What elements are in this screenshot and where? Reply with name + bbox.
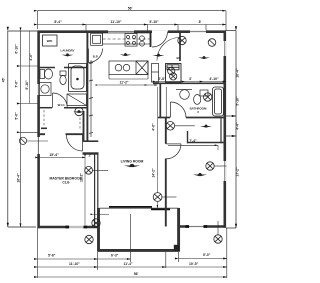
bedroom2 tag circle	[206, 162, 227, 170]
patio dim tick line	[94, 213, 110, 215]
hall west wall	[86, 31, 88, 142]
water heater tag 1	[168, 67, 175, 74]
svg-text:16'-4": 16'-4"	[17, 173, 21, 183]
window left bath1	[37, 84, 40, 95]
laundry fan	[62, 53, 74, 56]
fridge	[91, 33, 103, 45]
kitchen inner dim	[99, 84, 158, 86]
sink 1	[40, 83, 52, 96]
kitchen counter band	[103, 33, 151, 44]
bedroom2 width dim	[168, 145, 218, 150]
bath1 door arc	[53, 93, 68, 108]
living vertical dim	[156, 87, 158, 208]
bedroom2 fan	[193, 173, 207, 176]
patio corner post	[174, 245, 179, 251]
stove	[125, 34, 137, 47]
bottom dim row 2	[38, 266, 227, 268]
bottom dim extension lines	[38, 214, 227, 278]
svg-text:7'-4": 7'-4"	[189, 139, 197, 143]
kitchen fan	[120, 53, 132, 56]
bath2 vanity edge	[165, 87, 167, 117]
bedroom2 closet east stub	[220, 119, 222, 144]
sliding door panel 1	[109, 206, 152, 208]
island with dishwasher	[109, 61, 148, 74]
dining tag circle	[178, 36, 186, 44]
pantry cabinet	[152, 64, 159, 83]
hall east stub wall	[83, 111, 85, 142]
svg-text:56': 56'	[134, 272, 139, 276]
living tag circle	[153, 193, 176, 202]
nook tag circle	[208, 39, 216, 47]
laundry storage box	[43, 35, 58, 46]
svg-text:6'-3": 6'-3"	[111, 253, 119, 257]
svg-text:LIVING ROOM: LIVING ROOM	[121, 160, 144, 164]
svg-text:W.I.C.: W.I.C.	[58, 103, 66, 107]
tub	[69, 64, 87, 92]
svg-text:4'-4": 4'-4"	[236, 122, 240, 130]
mech closet	[166, 64, 182, 83]
bath2 toilet	[194, 90, 208, 104]
master jog stub	[83, 152, 99, 154]
svg-text:5'-6": 5'-6"	[48, 253, 56, 257]
svg-text:15'-4": 15'-4"	[49, 153, 59, 157]
dining back door arc	[152, 32, 168, 48]
window jamb marks	[66, 225, 208, 228]
svg-text:8'-4": 8'-4"	[54, 20, 62, 24]
svg-text:LAUNDRY: LAUNDRY	[60, 49, 74, 53]
toilet 1	[40, 69, 53, 79]
island counter edge	[109, 74, 148, 79]
master depth dim line	[84, 157, 86, 225]
svg-text:5'-10": 5'-10"	[236, 96, 240, 106]
svg-text:8': 8'	[199, 20, 202, 24]
svg-text:11'-10": 11'-10"	[111, 20, 122, 24]
toilet 1b	[60, 71, 66, 85]
left exterior wall	[37, 31, 40, 229]
svg-text:BP: BP	[177, 56, 181, 60]
patio bottom wall	[98, 249, 180, 252]
bottom wall bedroom2	[179, 225, 226, 228]
svg-text:4'-6": 4'-6"	[151, 123, 155, 131]
window bottom master	[67, 226, 86, 229]
wic dashed shelf	[43, 110, 45, 127]
living/bedroom2 wall upper	[165, 118, 167, 144]
living/bedroom2 wall lower	[165, 159, 167, 227]
window bottom bedroom2	[187, 225, 206, 228]
bedroom2 door arc	[166, 144, 181, 159]
nook door arc	[157, 38, 180, 61]
svg-text:4'-10": 4'-10"	[209, 77, 219, 81]
top dim row 1 overall 56'	[38, 11, 227, 31]
bedroom2 closet west stub	[187, 131, 189, 143]
svg-text:11'-2": 11'-2"	[119, 80, 128, 84]
svg-text:3': 3'	[189, 77, 192, 81]
dining stub wall	[179, 31, 181, 61]
svg-text:CLG: CLG	[62, 181, 70, 185]
bath2 north wall	[153, 82, 226, 84]
bedroom2 fan north	[200, 124, 212, 127]
laundry door arc	[89, 49, 103, 63]
svg-text:2'-8": 2'-8"	[158, 77, 166, 81]
linen closet	[67, 94, 87, 106]
svg-text:11'-10": 11'-10"	[69, 262, 80, 266]
wic wall stub	[41, 127, 47, 129]
hall dim tick column	[89, 60, 93, 137]
svg-text:11'-4": 11'-4"	[124, 262, 133, 266]
svg-text:5'-6": 5'-6"	[15, 112, 19, 120]
svg-text:5'-10": 5'-10"	[25, 80, 29, 90]
svg-text:10'-4": 10'-4"	[236, 68, 240, 78]
laundry south wall	[38, 67, 88, 69]
svg-text:14'-2": 14'-2"	[151, 168, 155, 178]
svg-text:4'-0": 4'-0"	[29, 53, 33, 61]
bath2 south wall	[158, 117, 226, 119]
top exterior wall	[38, 30, 226, 33]
living room fan + label	[124, 164, 140, 168]
bath2 tag circle	[204, 93, 212, 101]
back door opening in top wall	[152, 30, 168, 33]
bottom dim row 3 overall 56'	[38, 276, 227, 278]
bottom wall master bedroom	[38, 226, 99, 229]
right exterior wall	[224, 31, 227, 228]
svg-text:2': 2'	[89, 154, 92, 158]
window right dining	[223, 41, 226, 56]
svg-text:10'-5": 10'-5"	[189, 262, 199, 266]
bath1 south wall	[38, 107, 88, 109]
water heater tag 2	[170, 73, 177, 80]
bottom dim row 1	[38, 258, 227, 261]
svg-text:56': 56'	[128, 7, 133, 11]
hall fan circle	[75, 107, 83, 115]
bath2 west wall	[159, 83, 161, 117]
window right bedroom2	[223, 161, 226, 181]
bath2 sink	[176, 90, 192, 100]
bedroom2 tag circle north	[166, 122, 195, 131]
patio left wall	[97, 208, 100, 252]
bath2 shower	[213, 87, 224, 116]
patio tag circle mid	[85, 235, 93, 243]
living south wall line	[100, 207, 179, 209]
right dim line	[226, 31, 236, 229]
patio right wall	[177, 208, 180, 252]
master east wall	[95, 154, 98, 228]
window top kitchen	[108, 30, 134, 33]
master door arc	[67, 135, 83, 151]
master north wall	[38, 133, 84, 135]
window top nook	[190, 30, 206, 33]
wic dashed shelf 2	[79, 118, 81, 131]
kitchen divider wall	[150, 31, 152, 47]
left window tag circle	[19, 137, 48, 144]
svg-text:6'-10": 6'-10"	[15, 44, 19, 54]
svg-text:B.P.: B.P.	[93, 55, 98, 59]
window left master	[37, 137, 40, 154]
patio tag circle left	[92, 219, 100, 227]
hall fan	[73, 110, 85, 113]
left inner dim column	[21, 31, 38, 227]
master fan tag	[85, 166, 108, 174]
bedroom2 bottom tag circle	[214, 221, 222, 243]
bedroom2 closet south wall	[187, 142, 225, 144]
top dim row 2 segments	[38, 25, 227, 32]
left mini dim column	[29, 31, 31, 104]
svg-text:45': 45'	[2, 78, 6, 83]
bath2 dim row	[156, 81, 226, 83]
svg-text:7'-6": 7'-6"	[15, 80, 19, 88]
master width dim	[39, 156, 86, 158]
svg-text:17'-2": 17'-2"	[236, 167, 240, 177]
left outer dim line	[8, 31, 38, 227]
kitchen sink	[140, 36, 145, 46]
svg-text:5'-10": 5'-10"	[149, 20, 159, 24]
dining fan	[153, 53, 165, 56]
svg-text:W/D: W/D	[47, 39, 53, 43]
bath2 door arc	[171, 102, 187, 118]
hall south wall	[84, 140, 99, 142]
sliding door panel 2	[151, 208, 170, 210]
svg-text:5'-0": 5'-0"	[203, 253, 211, 257]
nook fan	[198, 56, 210, 59]
